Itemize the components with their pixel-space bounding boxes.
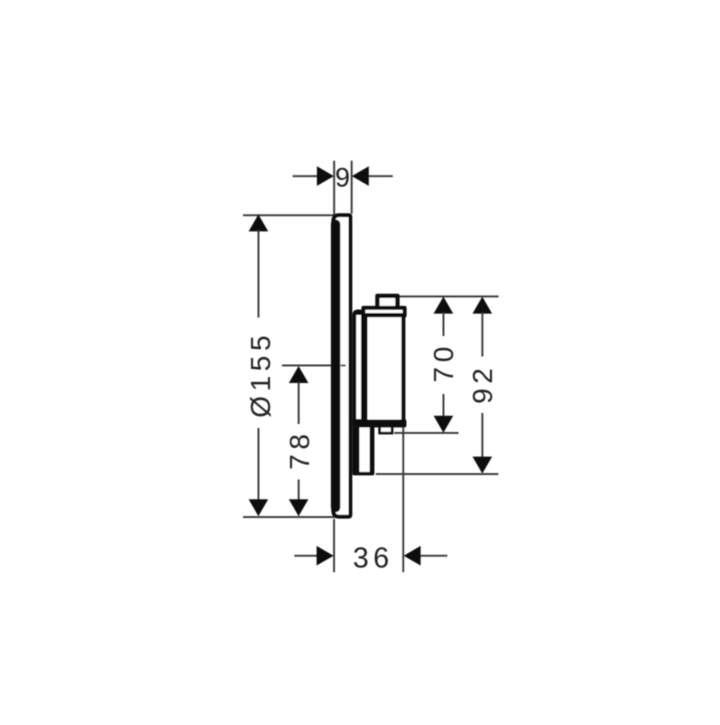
bottom step connector <box>378 425 393 434</box>
dimension 36: right arrowhead <box>404 546 421 566</box>
extension line at plate mid (78 datum) <box>282 365 334 367</box>
extension line from cap top (70/92 datum) <box>398 296 499 298</box>
svg-text:70: 70 <box>428 342 459 382</box>
dimension Ø155: lower shaft <box>258 428 260 501</box>
dimension 78: top arrowhead <box>289 366 309 383</box>
78 datum extension line tip inside plate <box>341 365 346 367</box>
dimension 78: bottom arrowhead <box>289 499 309 516</box>
extension line from plate top to Ø155 line <box>243 214 337 216</box>
dimension 9: right leader tail <box>369 175 393 177</box>
svg-text:Ø155: Ø155 <box>245 331 276 418</box>
escutcheon plate front face bar <box>331 224 340 507</box>
cartridge body <box>363 313 405 427</box>
dimension 78: lower shaft <box>298 480 300 501</box>
dimension 78: upper shaft <box>298 382 300 424</box>
dimension 36: left leader tail <box>294 555 318 557</box>
dimension 36: right extension line <box>402 428 404 573</box>
dimension 9: left extension line <box>333 161 335 217</box>
extension line at plate bottom <box>243 516 337 518</box>
svg-text:78: 78 <box>284 429 315 469</box>
dimension 92: top arrowhead <box>473 297 493 314</box>
dimension 36: left arrowhead <box>317 546 334 566</box>
extension line below step (70 datum) <box>394 432 458 434</box>
svg-text:92: 92 <box>467 364 498 404</box>
dimension 70: upper shaft <box>443 313 445 337</box>
cartridge cap (top button) <box>375 294 399 307</box>
dimension 36: left extension line <box>333 519 335 572</box>
dimension Ø155: bottom arrowhead <box>249 499 269 516</box>
cartridge collar (top flange) <box>361 306 406 318</box>
dimension 92: bottom arrowhead <box>473 457 493 474</box>
valve stem (upper narrow column behind body) <box>352 310 365 431</box>
svg-text:9: 9 <box>335 162 350 192</box>
dimension 9: right arrowhead <box>352 166 369 186</box>
escutcheon plate outline (side profile) <box>333 215 350 517</box>
dimension 70: bottom arrowhead <box>434 416 454 433</box>
dimension 36: right leader tail <box>420 555 447 557</box>
dimension 70: lower shaft <box>443 394 445 417</box>
dimension Ø155: upper shaft <box>258 230 260 318</box>
dimension 92: upper shaft <box>481 313 483 357</box>
dimension 9: left arrowhead <box>317 166 334 186</box>
dimension Ø155: top arrowhead <box>249 214 269 231</box>
svg-text:36: 36 <box>353 543 394 575</box>
extension line at tube bottom (92 datum) <box>376 473 499 475</box>
bottom flange <box>361 420 406 428</box>
valve lower tube (below body) <box>352 419 374 475</box>
dimension 9: left leader tail <box>293 175 318 177</box>
dimension 9: right extension line <box>351 161 353 214</box>
dimension 70: top arrowhead <box>434 297 454 314</box>
dimension 92: lower shaft <box>481 413 483 458</box>
